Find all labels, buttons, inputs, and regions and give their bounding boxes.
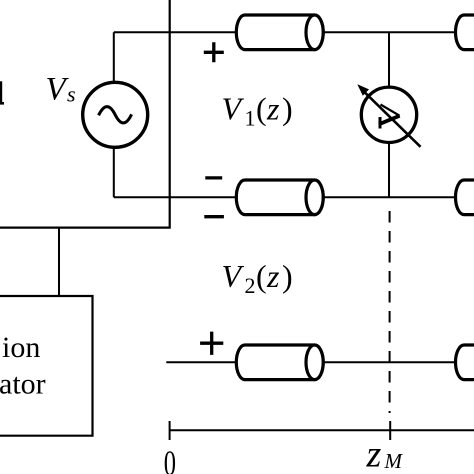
svg-text:1: 1	[245, 106, 256, 131]
svg-text:ion: ion	[2, 331, 40, 364]
svg-text:M: M	[384, 449, 404, 473]
svg-text:z: z	[266, 258, 280, 294]
svg-text:ator: ator	[0, 368, 46, 401]
svg-text:): )	[282, 258, 293, 294]
svg-text:V: V	[46, 72, 70, 108]
svg-text:(: (	[256, 258, 267, 294]
svg-text:(: (	[256, 90, 267, 126]
svg-text:z: z	[266, 90, 280, 126]
svg-text:): )	[282, 90, 293, 126]
svg-text:2: 2	[245, 273, 256, 298]
svg-text:V: V	[222, 258, 245, 294]
svg-text:s: s	[67, 82, 76, 107]
svg-text:z: z	[366, 433, 382, 474]
svg-text:V: V	[222, 90, 245, 126]
svg-text:0: 0	[164, 443, 176, 474]
